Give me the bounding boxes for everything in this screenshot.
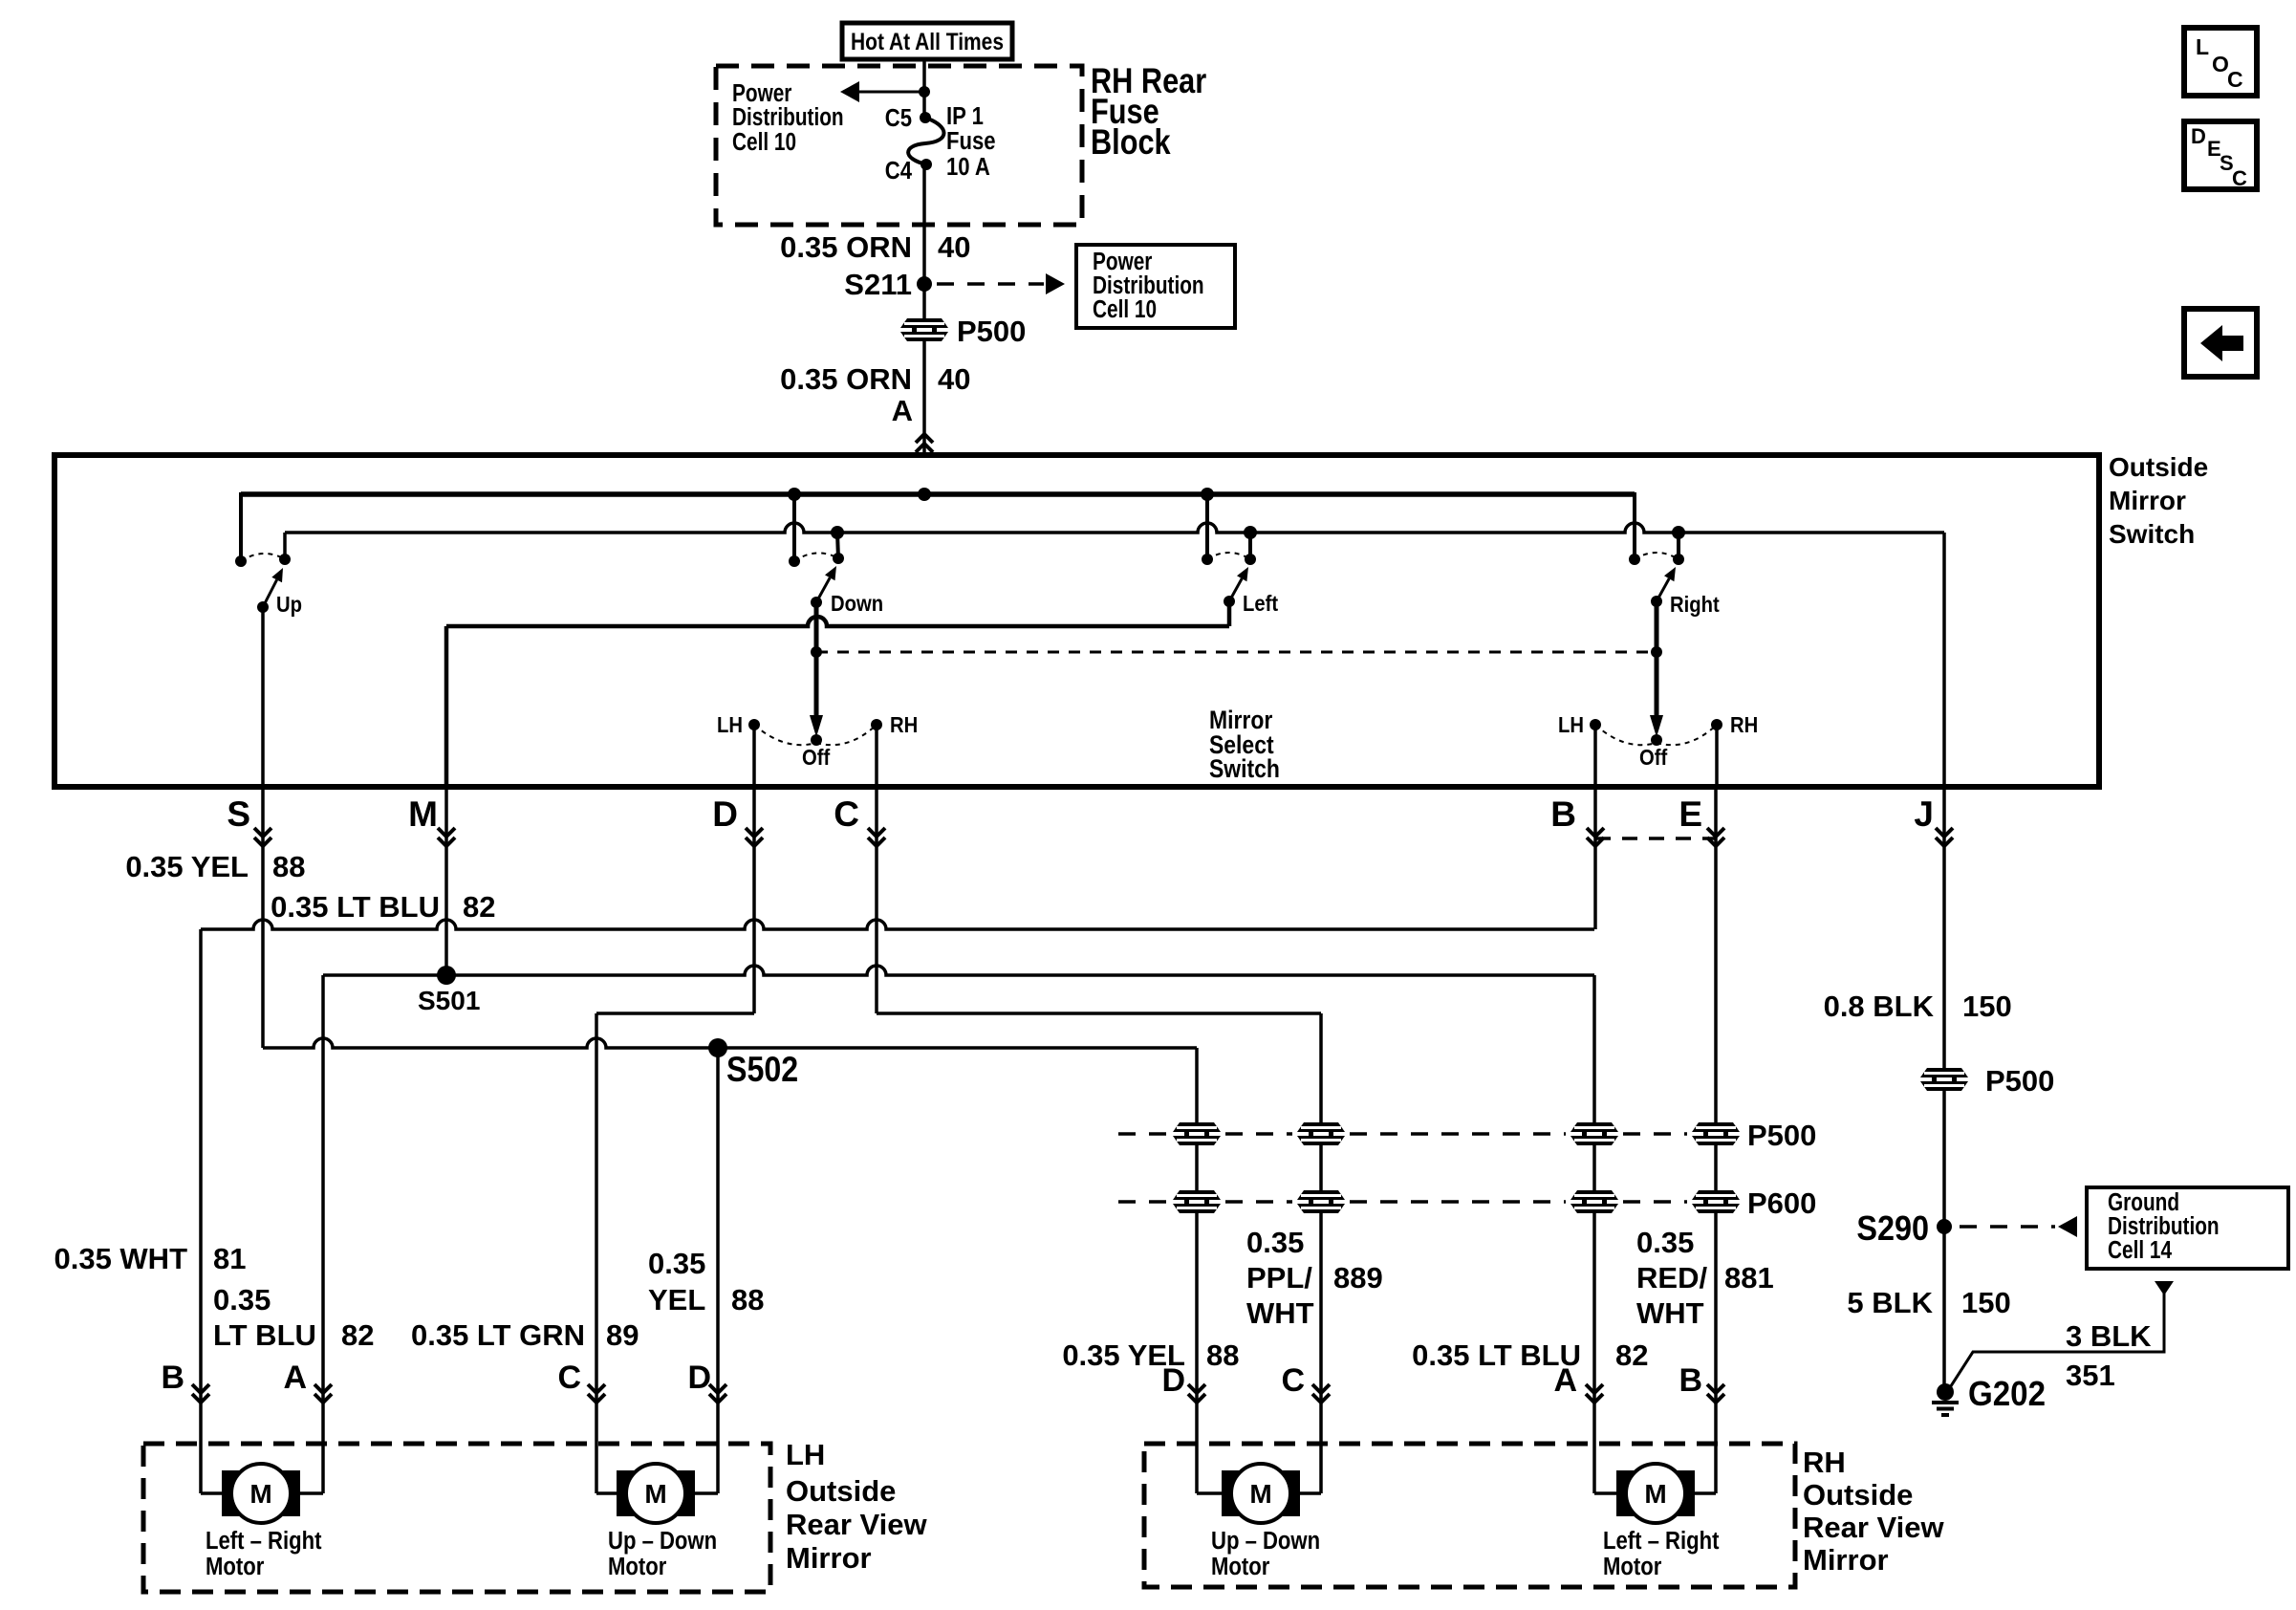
pin E of mirror switch: [1679, 794, 1724, 846]
pin B of mirror switch: [1550, 794, 1604, 846]
wire label: 0.35 LT BLU 82 (RH A): [1412, 1338, 1648, 1372]
switch: Left throw arc: [1207, 553, 1250, 559]
pin A of RH mirror: [1553, 1362, 1603, 1403]
motor: LH Left-Right Motor: [201, 1464, 323, 1580]
wire: 0.35 ORN 40 to switch: [922, 340, 926, 455]
dashed link between pins B and E: [1595, 837, 1716, 840]
motor: RH Left-Right Motor: [1594, 1464, 1719, 1580]
svg-text:Up – Down: Up – Down: [1211, 1527, 1320, 1555]
svg-text:LH: LH: [717, 712, 743, 738]
wire label: 0.35 PPL/WHT 889: [1246, 1226, 1383, 1330]
wire: 0.35 LT BLU 82 from M: [444, 787, 448, 975]
fuse F IP1 10A: [908, 112, 943, 170]
svg-text:Hot At All Times: Hot At All Times: [851, 29, 1004, 55]
svg-text:LH: LH: [1558, 712, 1584, 738]
svg-text:M: M: [1249, 1479, 1271, 1509]
pin C of LH mirror: [557, 1360, 605, 1403]
switch: Mirror Select RH contact (right): [1711, 719, 1722, 787]
svg-text:88: 88: [272, 850, 305, 883]
pin B of LH mirror: [161, 1360, 209, 1403]
switch: Right left contact: [1629, 554, 1640, 565]
wire: fuse output 0.35 ORN 40: [922, 164, 926, 284]
svg-text:Cell 10: Cell 10: [732, 128, 796, 156]
svg-text:Cell 10: Cell 10: [1093, 295, 1157, 323]
wire label: 0.35 WHT 81: [54, 1242, 246, 1275]
switch: Down left contact: [789, 555, 800, 567]
wire: from D: [752, 787, 756, 1013]
wire label: 0.35 ORN 40: [780, 362, 970, 396]
svg-text:WHT: WHT: [1636, 1296, 1704, 1330]
pin C of RH mirror: [1281, 1362, 1330, 1403]
svg-text:M: M: [408, 794, 438, 834]
connector P500 (RH B wire): [1691, 1122, 1741, 1145]
label box "Hot At All Times": [842, 23, 1012, 59]
svg-text:RH: RH: [1803, 1446, 1846, 1479]
connector P500 (RH C wire): [1296, 1122, 1346, 1145]
connector P600 (RH A wire): [1570, 1190, 1619, 1213]
connector P600 (RH B wire): [1691, 1190, 1741, 1213]
svg-text:Cell 14: Cell 14: [2108, 1236, 2172, 1264]
svg-text:881: 881: [1724, 1261, 1774, 1295]
reference box: Power Distribution Cell 10: [1076, 245, 1235, 328]
svg-text:P500: P500: [1747, 1119, 1816, 1152]
svg-text:B: B: [1550, 794, 1576, 834]
svg-text:S501: S501: [418, 986, 480, 1015]
node S502: [708, 1038, 798, 1090]
svg-text:RED/: RED/: [1636, 1261, 1707, 1295]
svg-text:88: 88: [731, 1283, 764, 1316]
svg-text:Left – Right: Left – Right: [1603, 1527, 1719, 1555]
svg-text:0.35 WHT: 0.35 WHT: [54, 1242, 187, 1275]
pin S of mirror switch: [227, 794, 271, 846]
switch: Up (left contact): [235, 555, 247, 567]
svg-text:M: M: [249, 1479, 271, 1509]
svg-text:150: 150: [1962, 990, 2012, 1023]
svg-text:D: D: [712, 794, 738, 834]
connector P500 (power feed): [899, 315, 1026, 348]
switch: Down right contact: [833, 553, 844, 564]
arrow to Power Distribution Cell 10: [859, 91, 924, 94]
svg-text:82: 82: [1615, 1338, 1648, 1372]
svg-text:RH: RH: [890, 712, 918, 738]
svg-text:B: B: [161, 1360, 184, 1396]
switch: Up (right contact): [279, 554, 291, 565]
switch: Left blade and common: [1224, 567, 1248, 607]
wire label: 0.35 LT BLU 82: [271, 890, 495, 924]
svg-text:Motor: Motor: [1603, 1553, 1662, 1580]
wire: stub bus1 to Left left contact: [1201, 488, 1214, 559]
svg-text:Rear View: Rear View: [1803, 1511, 1945, 1544]
svg-text:0.35: 0.35: [1636, 1226, 1694, 1259]
pin D of mirror switch: [712, 794, 763, 846]
svg-text:Switch: Switch: [1209, 754, 1280, 783]
svg-text:A: A: [1553, 1362, 1577, 1399]
wire: stub bus2 to Left right contact: [1244, 526, 1257, 559]
wire label: 0.35 YEL 88: [648, 1247, 764, 1316]
svg-text:40: 40: [938, 362, 970, 396]
svg-text:RH: RH: [1730, 712, 1758, 738]
label: RH Outside Rear View Mirror: [1803, 1446, 1945, 1577]
pin D of LH mirror: [687, 1360, 726, 1403]
wire: Right common to wiper arrow: [1650, 601, 1663, 737]
node S290: [1856, 1209, 1952, 1248]
svg-text:S: S: [227, 794, 250, 834]
svg-text:0.35 ORN: 0.35 ORN: [780, 230, 912, 264]
wire label: 0.35 LT GRN 89: [411, 1318, 639, 1352]
wire: from B: [1593, 787, 1597, 929]
switch: Down throw arc: [794, 553, 838, 561]
svg-text:Motor: Motor: [206, 1553, 265, 1580]
switch: Down blade and common: [811, 566, 836, 608]
svg-text:P600: P600: [1747, 1186, 1816, 1220]
node S211: [844, 268, 932, 301]
nav box back-arrow: [2184, 309, 2257, 377]
wire: bus3 from M to Left switch common: [446, 601, 1229, 787]
connector P600 (RH D wire): [1172, 1190, 1222, 1213]
svg-text:Left: Left: [1243, 591, 1278, 617]
wire label: 0.35 ORN 40: [780, 230, 970, 264]
component: RH Outside Rear View Mirror (dashed box): [1144, 1444, 1795, 1587]
switch: Up blade and common: [257, 568, 283, 613]
svg-text:D: D: [687, 1360, 711, 1396]
svg-text:0.8 BLK: 0.8 BLK: [1824, 990, 1935, 1023]
wire: 0.35 RED/WHT 881 from E: [1714, 787, 1718, 1493]
wire: from C: [875, 787, 878, 1013]
component: LH Outside Rear View Mirror (dashed box): [143, 1444, 770, 1592]
svg-text:P500: P500: [957, 315, 1026, 348]
svg-text:0.35: 0.35: [213, 1283, 271, 1316]
node S501: [418, 966, 480, 1015]
dashed arrow S211 to Power Distribution: [937, 273, 1065, 294]
pin M of mirror switch: [408, 794, 455, 846]
switch: Mirror Select Off position (right): [1595, 725, 1717, 746]
wire: 0.35 YEL 88 from S: [261, 787, 265, 1048]
wire: internal bus 2: [285, 523, 1944, 533]
motor: LH Up-Down Motor: [596, 1464, 718, 1580]
svg-text:Distribution: Distribution: [732, 103, 844, 131]
label: Mirror Select Switch: [1209, 706, 1280, 783]
wire segment above P500: [922, 284, 926, 319]
svg-text:Mirror: Mirror: [1803, 1543, 1889, 1577]
svg-text:Off: Off: [1639, 745, 1668, 771]
wire: stub bus1 to Down left contact: [788, 488, 801, 561]
wire label: 0.35 RED/WHT 881: [1636, 1226, 1774, 1330]
svg-text:Switch: Switch: [2109, 519, 2195, 549]
svg-text:C5: C5: [885, 104, 912, 132]
wire: row to LH left-right motor B (0.35 WHT 81): [201, 920, 1594, 1493]
connector P500 (RH A wire): [1570, 1122, 1619, 1145]
label: Power Distribution Cell 10 (in fuse block): [732, 79, 844, 156]
dashed mechanical link between select wipers: [816, 651, 1657, 654]
switch: Right blade and common: [1651, 567, 1676, 607]
pin C of mirror switch: [834, 794, 885, 846]
wire: 0.8 BLK 150 / 5 BLK 150 ground feed from J: [1942, 787, 1946, 1395]
RH Rear Fuse Block (dashed outline): [716, 66, 1082, 225]
svg-text:0.35: 0.35: [648, 1247, 705, 1280]
svg-text:LH: LH: [786, 1438, 825, 1471]
svg-text:Motor: Motor: [608, 1553, 667, 1580]
wire: internal feed bus (top): [241, 492, 1635, 561]
nav box DESC: [2184, 121, 2257, 190]
value label: IP 1 Fuse 10 A: [946, 102, 996, 181]
svg-text:A: A: [892, 394, 913, 427]
pin A of LH mirror: [283, 1360, 332, 1403]
connector chevrons entering switch: [916, 434, 933, 452]
svg-text:89: 89: [606, 1318, 639, 1352]
svg-text:M: M: [1644, 1479, 1666, 1509]
switch: Right right contact: [1673, 554, 1684, 565]
svg-text:Rear View: Rear View: [786, 1508, 928, 1541]
svg-text:S290: S290: [1856, 1209, 1929, 1248]
motor: RH Up-Down Motor: [1197, 1464, 1321, 1580]
switch: Mirror Select LH contact (right): [1590, 719, 1601, 787]
svg-text:10 A: 10 A: [946, 153, 990, 181]
svg-text:C: C: [2232, 166, 2247, 190]
svg-text:0.35: 0.35: [1246, 1226, 1304, 1259]
wire: stub bus2 to Right right contact: [1672, 526, 1685, 559]
switch: Left right contact: [1245, 554, 1256, 565]
wire label: 0.35 YEL 88 (RH D): [1062, 1338, 1239, 1372]
svg-text:M: M: [644, 1479, 666, 1509]
svg-text:Outside: Outside: [786, 1474, 896, 1508]
connector P600 (RH C wire): [1296, 1190, 1346, 1213]
wire: 3 BLK 351 from ground distribution: [1945, 1281, 2174, 1395]
svg-text:3 BLK: 3 BLK: [2066, 1319, 2152, 1353]
switch: Up throw arc: [241, 554, 285, 561]
svg-text:B: B: [1679, 1362, 1702, 1399]
label: LH Outside Rear View Mirror: [786, 1438, 928, 1575]
svg-text:Motor: Motor: [1211, 1553, 1270, 1580]
wire: S501 row (0.35 LT BLU 82): [323, 966, 1594, 1493]
svg-text:C: C: [1281, 1362, 1305, 1399]
svg-text:0.35 LT GRN: 0.35 LT GRN: [411, 1318, 585, 1352]
svg-text:0.35 ORN: 0.35 ORN: [780, 362, 912, 396]
svg-text:L: L: [2196, 34, 2209, 59]
svg-text:Block: Block: [1091, 122, 1171, 162]
label: RH Rear Fuse Block: [1091, 61, 1206, 162]
wire label: 0.35 LT BLU 82: [213, 1283, 374, 1352]
svg-text:D: D: [1161, 1362, 1185, 1399]
wire: Up common to terminal S: [261, 607, 265, 787]
svg-text:YEL: YEL: [648, 1283, 705, 1316]
wire label: 3 BLK 351: [2066, 1319, 2152, 1392]
svg-text:Up – Down: Up – Down: [608, 1527, 717, 1555]
pin J of mirror switch: [1914, 794, 1953, 846]
svg-text:82: 82: [341, 1318, 374, 1352]
switch: Right throw arc: [1635, 553, 1679, 559]
svg-text:P500: P500: [1985, 1064, 2054, 1098]
pin B of RH mirror: [1679, 1362, 1724, 1403]
component: Outside Mirror Switch (box): [54, 455, 2099, 787]
wire label: 0.8 BLK 150: [1824, 990, 2012, 1023]
wire: battery feed into fuse block: [922, 59, 926, 118]
dashed arrow to Ground Distribution: [1960, 1216, 2077, 1237]
svg-text:Up: Up: [276, 592, 302, 618]
svg-text:40: 40: [938, 230, 970, 264]
svg-text:Outside: Outside: [1803, 1478, 1913, 1512]
svg-text:0.35 YEL: 0.35 YEL: [125, 850, 249, 883]
svg-text:IP 1: IP 1: [946, 102, 984, 130]
svg-text:Mirror: Mirror: [786, 1541, 872, 1575]
node: feed joins bus: [918, 488, 931, 501]
switch: Left left contact: [1202, 554, 1213, 565]
svg-text:G202: G202: [1968, 1376, 2046, 1414]
wire label: 5 BLK 150: [1847, 1286, 2010, 1319]
dashed connector alignment P500: [1118, 1132, 1168, 1136]
label: Outside Mirror Switch: [2109, 452, 2208, 549]
svg-text:889: 889: [1333, 1261, 1383, 1295]
svg-text:82: 82: [463, 890, 495, 924]
switch: Mirror Select RH contact (left): [871, 719, 882, 787]
wire: D branch to LH up-down motor (0.35 LT GRN 89): [596, 1013, 754, 1493]
svg-text:C: C: [557, 1360, 581, 1396]
svg-text:S502: S502: [726, 1051, 798, 1090]
wire: C branch to RH up-down motor (0.35 PPL/WHT 889): [877, 1013, 1321, 1493]
svg-text:5 BLK: 5 BLK: [1847, 1286, 1933, 1319]
svg-text:D: D: [2191, 124, 2206, 148]
pin D of RH mirror: [1161, 1362, 1205, 1403]
svg-text:C: C: [834, 794, 859, 834]
svg-text:PPL/: PPL/: [1246, 1261, 1312, 1295]
svg-text:J: J: [1914, 794, 1934, 834]
svg-text:C4: C4: [885, 157, 913, 185]
svg-text:351: 351: [2066, 1359, 2115, 1392]
dashed connector alignment P600: [1118, 1200, 1168, 1204]
node: junction at fuse feed: [919, 86, 930, 98]
switch: Mirror Select Off position (left): [754, 725, 877, 746]
wire: S502 row (0.35 YEL 88): [263, 1038, 1197, 1493]
wire: bus2 end stubs: [285, 533, 1944, 787]
svg-text:LT BLU: LT BLU: [213, 1318, 316, 1352]
svg-text:Left – Right: Left – Right: [206, 1527, 321, 1555]
connector P500 (RH D wire): [1172, 1122, 1222, 1145]
ground G202: [1932, 1376, 2046, 1415]
wire: Down common to wiper arrow: [810, 602, 823, 737]
svg-text:E: E: [1679, 794, 1702, 834]
svg-text:S211: S211: [844, 268, 912, 301]
svg-text:A: A: [283, 1360, 307, 1396]
connector P500 (J ground wire): [1919, 1064, 2054, 1098]
svg-text:88: 88: [1206, 1338, 1239, 1372]
svg-text:0.35 LT BLU: 0.35 LT BLU: [271, 890, 440, 924]
wire: stub bus2 to Down right contact: [831, 526, 844, 558]
reference box: Ground Distribution Cell 14: [2087, 1187, 2288, 1269]
svg-text:150: 150: [1961, 1286, 2011, 1319]
wire label: 0.35 YEL 88: [125, 850, 305, 883]
svg-text:Down: Down: [831, 591, 883, 617]
nav box LOC: [2184, 28, 2257, 96]
switch: Mirror Select LH contact (left): [748, 719, 760, 787]
svg-text:Outside: Outside: [2109, 452, 2208, 482]
svg-text:81: 81: [213, 1242, 246, 1275]
svg-text:C: C: [2227, 67, 2243, 92]
svg-text:WHT: WHT: [1246, 1296, 1314, 1330]
svg-text:Off: Off: [802, 745, 831, 771]
svg-text:Fuse: Fuse: [946, 127, 996, 155]
svg-text:Mirror: Mirror: [2109, 486, 2186, 515]
svg-text:Right: Right: [1670, 592, 1720, 618]
